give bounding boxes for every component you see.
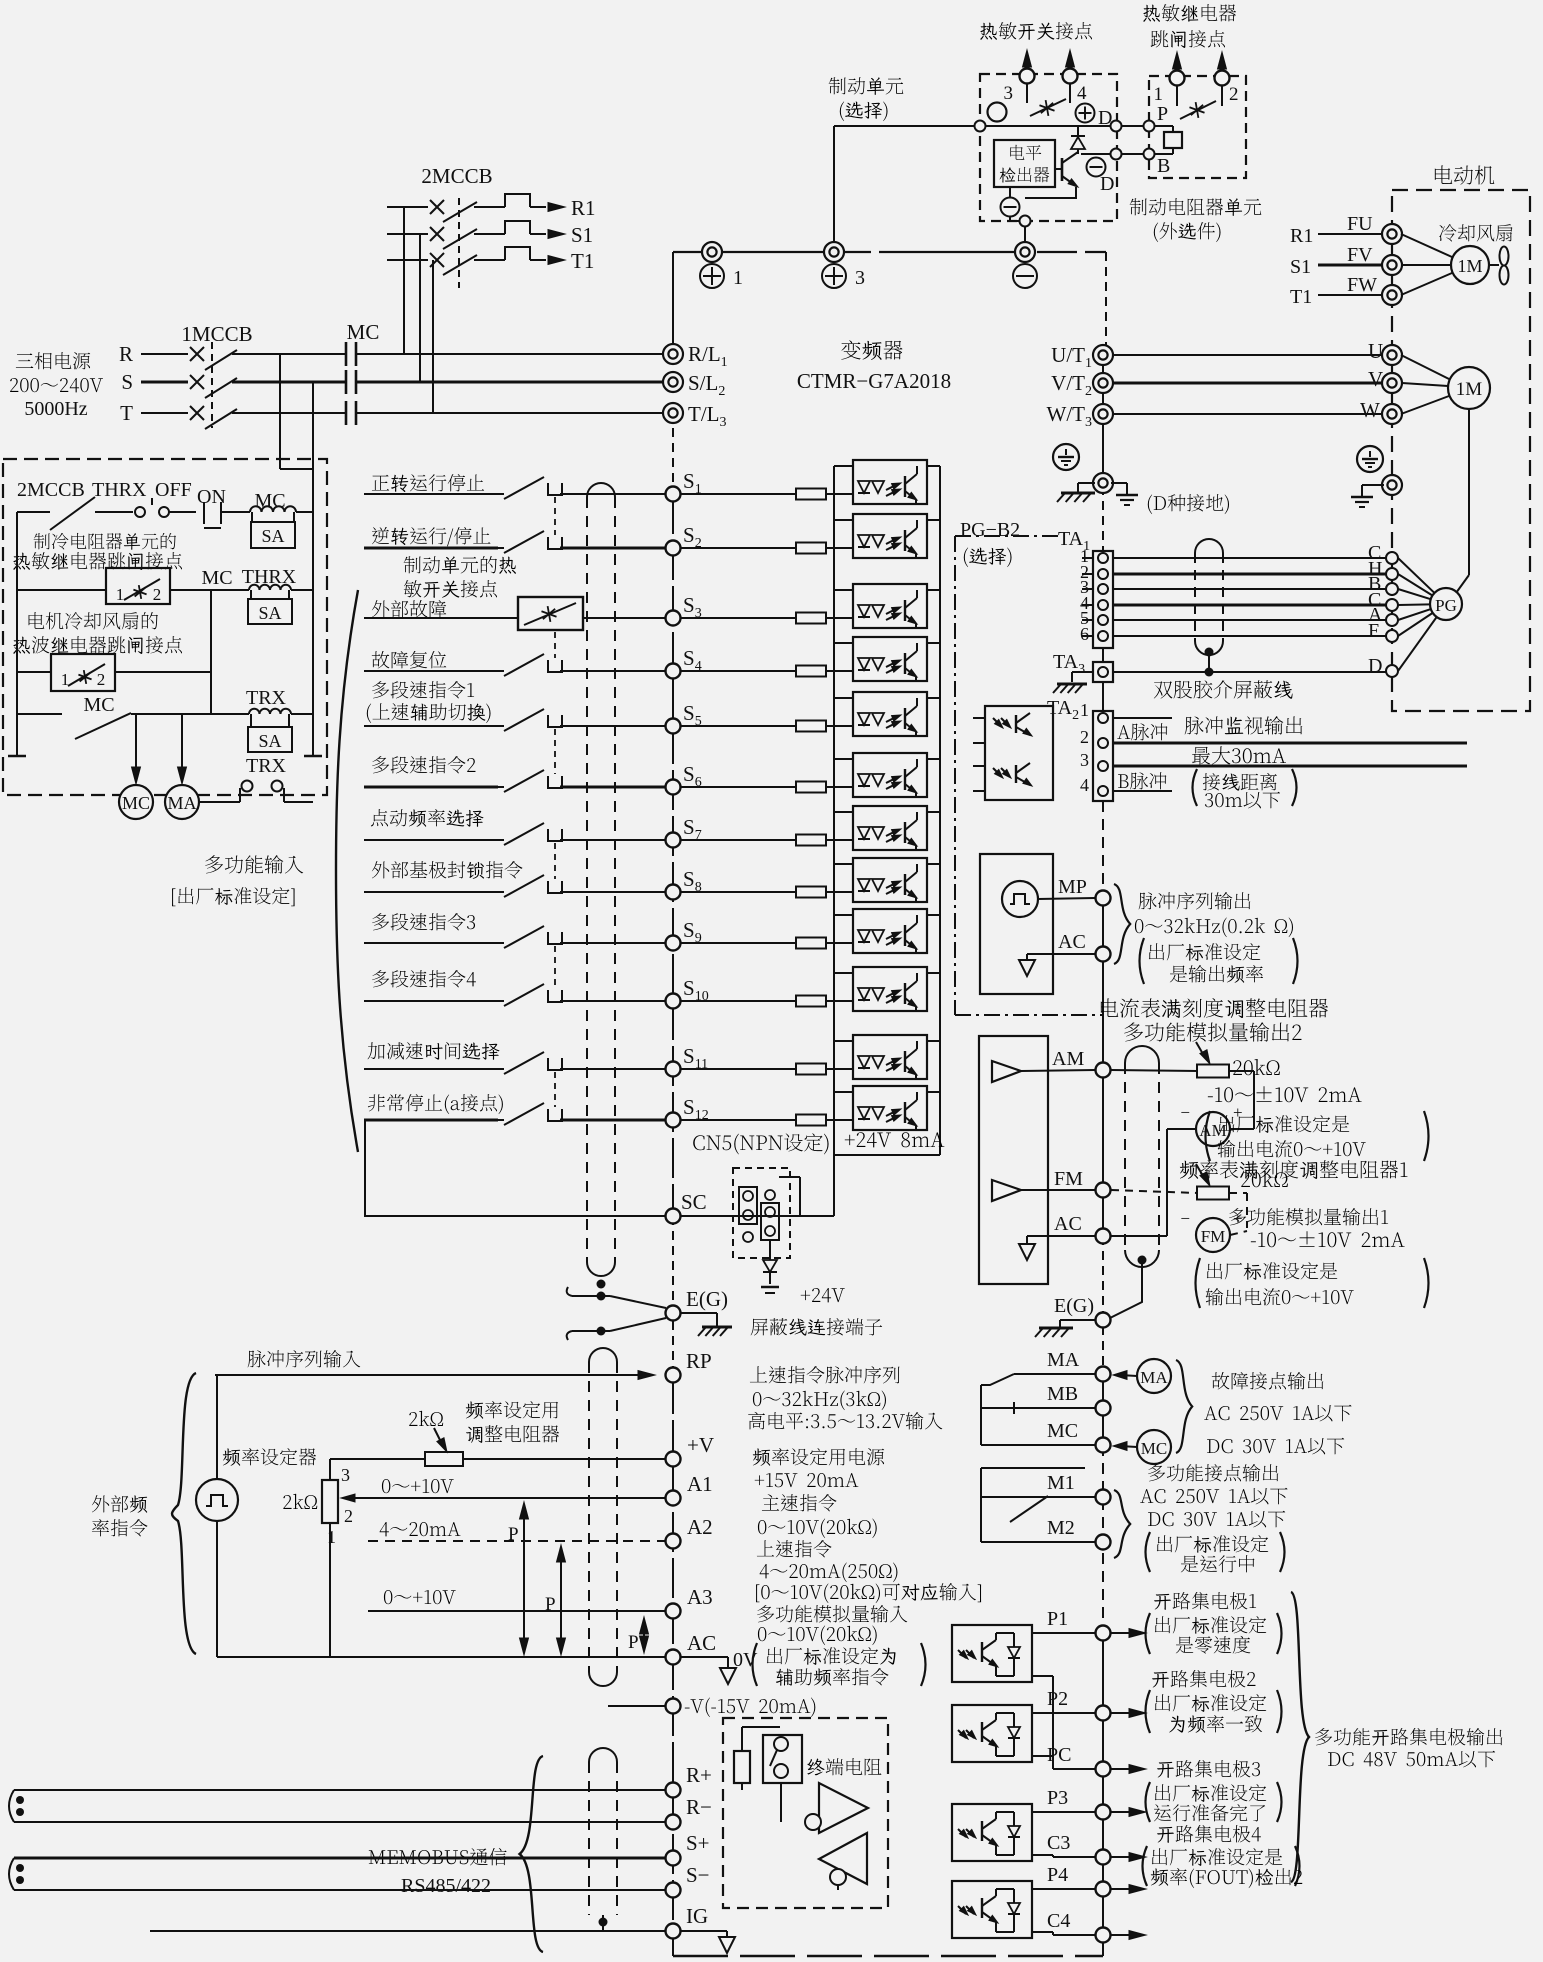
svg-text:SA: SA: [261, 526, 284, 546]
pin TA2-4: [1098, 786, 1108, 796]
terminal SC: [364, 1215, 666, 1217]
arrow C4 out: [1111, 1934, 1136, 1936]
svg-text:MC: MC: [201, 567, 232, 589]
label 跳闸接点: [1151, 30, 1225, 48]
terminal AC analog: [1096, 1229, 1111, 1244]
arrow P1 out: [1111, 1632, 1136, 1634]
terminal T/L3: [663, 403, 683, 423]
pin TA2-2: [1098, 738, 1108, 748]
contact thermal 1-2 rung2: [106, 568, 170, 604]
switch S4: [498, 670, 504, 672]
input resistor S6: [681, 786, 797, 788]
label 制动单元: [829, 77, 904, 95]
inverter top bus line: [673, 251, 1106, 253]
terminal ground left: [1093, 473, 1113, 493]
annotation input block right texts: [750, 1366, 900, 1383]
relay target MA circle: [165, 785, 199, 819]
optocoupler P3: [952, 1804, 1032, 1861]
node brake bottom: [1020, 216, 1031, 227]
terminal S2: [666, 541, 681, 556]
terminal U/T1: [1093, 345, 1113, 365]
bus relay right: [312, 382, 314, 756]
ground symbol circle left: [1053, 444, 1079, 470]
CN5 diode: [769, 1240, 771, 1260]
symbol minus D: [1087, 158, 1106, 177]
terminal C4: [1032, 1931, 1053, 1933]
terminal S8: [666, 885, 681, 900]
indicator MA circle: [1137, 1359, 1171, 1393]
label 多功能输入: [205, 855, 303, 873]
svg-text:MA: MA: [1047, 1349, 1080, 1371]
terminal P of resistor unit: [1144, 121, 1155, 132]
label DC 30V: [1207, 1438, 1344, 1455]
svg-text:+V: +V: [687, 1433, 714, 1457]
svg-text:MA: MA: [167, 793, 196, 813]
analog output box: [979, 1036, 1048, 1284]
label DC 30V M: [1148, 1511, 1285, 1528]
terminal E(G) left: [666, 1306, 681, 1321]
wire PG signal 4: [1113, 604, 1386, 607]
svg-text:D: D: [1100, 173, 1114, 195]
svg-text:C4: C4: [1047, 1910, 1070, 1932]
connector TA3: [1093, 662, 1113, 682]
switch S1: [498, 493, 504, 495]
shield drain to EG: [1110, 1260, 1142, 1318]
wire input S11 row: [364, 1068, 498, 1070]
terminal S11: [666, 1062, 681, 1077]
svg-text:MC: MC: [122, 793, 150, 813]
svg-text:AC: AC: [1054, 1213, 1082, 1235]
shield cable 2 (dashed pair): [589, 1348, 617, 1362]
label 频率设定器: [223, 1448, 316, 1466]
terminal fan FU: [1382, 224, 1402, 244]
terminal V/T2: [1093, 373, 1113, 393]
terminal A2: [666, 1534, 681, 1549]
svg-text:6: 6: [1080, 624, 1089, 644]
wire S+: [14, 1857, 666, 1860]
terminal MB: [1096, 1401, 1111, 1416]
label 脉冲序列输入: [248, 1350, 361, 1367]
svg-text:T: T: [120, 401, 133, 425]
terminal AC pulse: [1096, 947, 1111, 962]
breaker 2MCCB pole R1: [387, 206, 428, 208]
wire input S1 row: [364, 493, 498, 495]
inverter left boundary upper: [672, 252, 674, 354]
relay box outline (dashed): [3, 459, 327, 795]
wire FM meter (dashed): [1229, 1192, 1247, 1194]
contact M2: [981, 1541, 1095, 1543]
pg pin F: [1386, 630, 1398, 642]
svg-text:3: 3: [341, 1465, 350, 1485]
svg-text:1: 1: [1080, 700, 1089, 720]
input resistor S11: [681, 1068, 797, 1070]
label 多功能模拟量输出2: [1124, 1022, 1301, 1041]
label 非常停止(a接点): [368, 1094, 503, 1114]
wire +V line: [330, 1458, 425, 1460]
svg-text:T1: T1: [1290, 286, 1312, 308]
ground motor symbol: [1362, 484, 1384, 486]
label -10V AM: [1208, 1086, 1362, 1102]
svg-text:2MCCB: 2MCCB: [17, 479, 85, 501]
label 敏开关接点: [404, 580, 497, 598]
svg-text:PG: PG: [1435, 596, 1457, 615]
ground D wire: [1111, 482, 1127, 484]
wire +24V chain: [939, 466, 941, 1155]
stub opto S8 supply: [927, 863, 940, 865]
label 多功能开路集电极输出: [1315, 1728, 1502, 1746]
contactor MC contact S: [345, 370, 348, 394]
stub opto S7 supply: [927, 811, 940, 813]
fan motor 1M: [1451, 246, 1489, 284]
svg-text:FW: FW: [1347, 274, 1377, 296]
label 多段速指令4: [372, 970, 476, 987]
optocoupler S12: [853, 1086, 927, 1130]
wire 2MCCB feed S: [419, 234, 421, 381]
wire AM meter: [1229, 1070, 1254, 1072]
optocoupler S9: [853, 909, 927, 953]
terminal S−: [666, 1883, 681, 1898]
pg pin A: [1386, 614, 1398, 626]
svg-text:MP: MP: [1058, 876, 1087, 898]
terminal P4: [1096, 1882, 1111, 1897]
terminal MA: [1096, 1367, 1111, 1382]
wire input S8 row: [364, 891, 498, 893]
ground hatch left: [1078, 482, 1095, 484]
svg-text:4: 4: [1080, 775, 1089, 795]
label AC 250V M: [1140, 1488, 1287, 1505]
optocoupler S7: [853, 806, 927, 850]
svg-text:3: 3: [855, 267, 865, 289]
svg-text:P: P: [545, 1594, 556, 1615]
terminal MC: [1096, 1438, 1111, 1453]
switch link dashed S11-S12: [554, 1072, 556, 1107]
ground hatch E(G) left: [702, 1326, 732, 1329]
breaker 2MCCB pole T1: [387, 259, 428, 261]
terminal plus1: [702, 242, 722, 262]
label MEMOBUS: [369, 1848, 507, 1866]
terminal S10: [666, 994, 681, 1009]
svg-text:2: 2: [1229, 84, 1239, 105]
contact 1-2 blade: [1176, 86, 1178, 106]
thermal relay terminal 2: [1221, 54, 1223, 70]
optocoupler S10: [853, 967, 927, 1011]
label 多功能接点输出: [1148, 1464, 1278, 1481]
stub opto S7 common: [834, 811, 853, 813]
contact thermal special S3: [518, 597, 583, 630]
wire AC analog: [1027, 1235, 1095, 1237]
relay contact MA: [1014, 1373, 1095, 1375]
svg-text:FM: FM: [1201, 1227, 1226, 1246]
ground TA3: [1072, 671, 1093, 673]
svg-text:P1: P1: [1047, 1608, 1068, 1630]
svg-text:2: 2: [1080, 727, 1089, 747]
wire IG ground: [681, 1930, 727, 1932]
svg-text:A1: A1: [687, 1472, 713, 1496]
svg-text:THRX: THRX: [92, 479, 147, 501]
stub opto S11 supply: [927, 1040, 940, 1042]
terminal P1: [1096, 1626, 1111, 1641]
breaker 1MCCB pole R: [190, 347, 204, 361]
CN5 header left: [739, 1187, 757, 1224]
terminal S/L2: [663, 372, 683, 392]
terminal A3: [666, 1604, 681, 1619]
wire brake P line: [986, 125, 1143, 127]
terminal fan FV: [1382, 255, 1402, 275]
svg-text:2: 2: [153, 585, 162, 604]
transistor IGBT: [1055, 168, 1062, 170]
buffer FM: [992, 1180, 1021, 1201]
input resistor S4: [681, 670, 797, 672]
stub opto S5 common: [834, 697, 853, 699]
contact M1: [981, 1496, 1095, 1498]
contact THRX blade rung1: [42, 511, 50, 513]
symbol plus D: [1076, 104, 1095, 123]
optocoupler S8: [853, 858, 927, 902]
svg-text:E(G): E(G): [1054, 1295, 1094, 1317]
switch link dashed S7-S8: [554, 843, 556, 879]
svg-text:MC: MC: [83, 694, 114, 716]
wire input S7 row: [364, 839, 498, 841]
switch S6: [498, 786, 504, 788]
shield stadium analog: [1125, 1046, 1159, 1063]
pin TA1-2: [1098, 569, 1108, 579]
wire A3 line: [368, 1610, 666, 1612]
driver buffer RS485 in: [819, 1833, 867, 1884]
wire AM: [1021, 1070, 1095, 1071]
pin TA1-1: [1098, 553, 1108, 563]
terminal P2: [1096, 1706, 1111, 1721]
pushbutton OFF: [95, 511, 133, 513]
stub opto S5 supply: [927, 697, 940, 699]
wire PG signal 5: [1113, 619, 1386, 621]
svg-text:P: P: [1157, 103, 1168, 125]
label text 热敏继电器跳闸接点: [13, 552, 182, 570]
breaker 1MCCB pole S: [190, 375, 204, 389]
svg-text:SA: SA: [258, 731, 281, 751]
wire FM: [1021, 1189, 1095, 1191]
svg-text:M2: M2: [1047, 1517, 1075, 1539]
svg-text:S1: S1: [1290, 256, 1311, 278]
svg-text:IG: IG: [686, 1904, 708, 1928]
pin TA2-1: [1098, 713, 1108, 723]
wire PG signal 1: [1113, 557, 1386, 559]
svg-text:U: U: [1368, 339, 1383, 363]
pin TA2-3: [1098, 761, 1108, 771]
svg-text:P3: P3: [1047, 1787, 1068, 1809]
label 电动机: [1435, 165, 1494, 184]
node P1: [1111, 121, 1122, 132]
label text 热波继电器跳闸接点: [13, 636, 182, 654]
terminal PC: [1053, 1768, 1095, 1770]
svg-text:MC: MC: [1047, 1420, 1078, 1442]
label 开路集电极1: [1154, 1592, 1256, 1610]
terminal S1: [666, 487, 681, 502]
optocoupler P2: [952, 1705, 1032, 1762]
input resistor S10: [681, 1000, 797, 1002]
twisted pair R: [9, 1790, 14, 1822]
svg-text:2: 2: [97, 670, 106, 689]
contact MC rung3: [75, 713, 131, 739]
stub opto S9 common: [834, 914, 853, 916]
svg-text:1: 1: [733, 267, 743, 289]
breaker 1MCCB link (dashed): [211, 342, 213, 428]
shield cable 1 (dashed pair): [587, 483, 615, 497]
label 屏蔽线连接端子: [751, 1318, 882, 1336]
node B1: [1111, 149, 1122, 160]
terminal S7: [666, 833, 681, 848]
stubs TA2 box: [973, 717, 985, 719]
label 制动单元的热: [404, 556, 516, 574]
svg-text:RS485/422: RS485/422: [401, 1875, 491, 1897]
label 电流表满刻度调整电阻器: [1101, 998, 1328, 1018]
arrow to coil MA: [181, 714, 183, 776]
svg-text:P: P: [628, 1632, 639, 1653]
label A脉冲: [1117, 723, 1167, 740]
arrow P3 out: [1111, 1811, 1136, 1813]
label 多段速指令2: [372, 756, 475, 773]
label 脉冲监视输出: [1185, 716, 1303, 734]
wire E(G) to ground: [681, 1312, 717, 1314]
terminal A1: [666, 1491, 681, 1506]
wire R−: [14, 1821, 666, 1823]
svg-text:R1: R1: [1290, 225, 1313, 247]
wire motor phase 3: [1113, 413, 1383, 415]
label 终端电阻: [807, 1758, 881, 1775]
buffer AM: [992, 1061, 1021, 1082]
wire A2 line (dashed): [368, 1540, 666, 1542]
wire input S3 row: [364, 617, 518, 619]
svg-text:W: W: [1360, 398, 1380, 422]
stub opto S6 supply: [927, 758, 940, 760]
brake resistor unit box (dashed): [1149, 76, 1246, 178]
input resistor S8: [681, 891, 797, 893]
svg-text:MA: MA: [1140, 1368, 1168, 1387]
svg-text:−: −: [1180, 1209, 1190, 1228]
level detector box: [994, 140, 1055, 187]
switch link dashed S1-S2: [554, 497, 556, 535]
label 故障接点输出: [1212, 1372, 1324, 1390]
wire input S5 row: [364, 725, 498, 727]
input resistor S1: [681, 493, 797, 495]
svg-text:P: P: [508, 1524, 519, 1545]
svg-text:1M: 1M: [1456, 379, 1483, 400]
breaker 2MCCB pole S1: [387, 233, 428, 235]
ground symbol circle right: [1357, 446, 1383, 472]
svg-text:FV: FV: [1347, 244, 1373, 266]
svg-text:1: 1: [1154, 84, 1164, 105]
label 脉冲序列输出: [1139, 892, 1251, 909]
wire brake feed: [834, 125, 980, 127]
svg-text:T1: T1: [571, 249, 594, 273]
input resistor S9: [681, 942, 797, 944]
braking resistor: [1155, 125, 1173, 127]
label (上速辅助切换): [367, 703, 491, 723]
brace fault output: [1176, 1360, 1192, 1453]
label D种接地: [1148, 494, 1229, 514]
label 开路集电极4: [1157, 1825, 1261, 1843]
wire motor phase 1: [1113, 354, 1383, 356]
terminal C3: [1032, 1854, 1053, 1856]
label 热敏继电器: [1143, 4, 1236, 22]
optocoupler P1: [952, 1625, 1032, 1682]
wire RP input: [215, 1374, 645, 1376]
optocoupler S2: [853, 514, 927, 558]
bus relay left: [16, 512, 18, 756]
switch link dashed S9-S10: [554, 946, 556, 988]
wire P2: [1032, 1712, 1095, 1714]
pulse monitor box: [980, 854, 1053, 994]
svg-text:D: D: [1368, 655, 1382, 677]
contact thermal 1-2 second: [51, 654, 115, 691]
stub opto S10 supply: [927, 972, 940, 974]
svg-text:MC: MC: [1141, 1439, 1167, 1458]
wire 2MCCB feed T: [432, 260, 434, 412]
label 加减速时间选择: [368, 1042, 500, 1060]
terminal E(G) right: [1096, 1313, 1111, 1328]
stub opto S11 common: [834, 1040, 853, 1042]
brace multi-function input: [336, 590, 358, 1152]
label text 制冷电阻器单元的: [34, 533, 176, 550]
input resistor S3: [681, 617, 797, 619]
wire P4: [1032, 1888, 1095, 1890]
wire AC to 0V ground: [681, 1656, 728, 1658]
terminal R/L1: [663, 344, 683, 364]
label -10V FM: [1251, 1231, 1405, 1247]
wire PG signal 3: [1113, 588, 1386, 590]
optocoupler S4: [853, 637, 927, 681]
switch S2: [498, 547, 504, 549]
node circle on brake box edge: [975, 121, 986, 132]
circle open on brake unit: [988, 103, 1007, 122]
wire SC to bus: [681, 1215, 834, 1217]
pg pin H: [1386, 568, 1398, 580]
breaker 2MCCB link (dashed): [458, 198, 460, 288]
label 逆转运行/停止: [372, 527, 491, 546]
label 点动频率选择: [371, 809, 484, 827]
optocoupler S1: [853, 460, 927, 504]
input resistor S7: [681, 839, 797, 841]
termination resistor: [734, 1751, 750, 1783]
arrow P A1-AC: [520, 1502, 529, 1519]
connector TA1: [1093, 551, 1113, 648]
wire AC line: [217, 1656, 666, 1658]
svg-text:SA: SA: [258, 603, 281, 623]
pin TA1-3: [1098, 584, 1108, 594]
terminal MP: [1096, 891, 1111, 906]
trim resistor 频率设定用: [425, 1452, 463, 1466]
terminal M1: [1096, 1490, 1111, 1505]
inverter right boundary (dashed): [1105, 252, 1107, 355]
terminal W/T3: [1093, 404, 1113, 424]
thermal switch terminal 3: [1026, 52, 1028, 68]
svg-text:S1: S1: [571, 223, 593, 247]
terminal R−: [666, 1815, 681, 1830]
relay contact MB: [1014, 1407, 1095, 1409]
label inverter 变频器: [841, 340, 902, 360]
switch S12: [498, 1119, 504, 1121]
contact 3-4 blade: [1026, 84, 1028, 103]
optocoupler S6: [853, 753, 927, 797]
stub opto S1 common: [834, 465, 853, 467]
svg-text:A2: A2: [687, 1515, 713, 1539]
wire input S12 row: [364, 1119, 498, 1122]
wire AM meter minus: [1167, 1128, 1196, 1130]
svg-text:MB: MB: [1047, 1383, 1078, 1405]
driver opto glyph: [993, 718, 1001, 726]
stub opto S10 common: [834, 972, 853, 974]
terminal FM: [1096, 1183, 1111, 1198]
terminal minus: [1015, 242, 1035, 262]
